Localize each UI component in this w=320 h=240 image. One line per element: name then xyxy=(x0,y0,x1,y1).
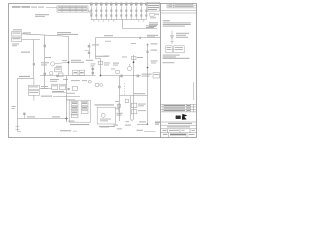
title block table lines xyxy=(161,104,197,137)
aux box cluster xyxy=(59,73,64,77)
relief header stub xyxy=(85,50,90,52)
riser to node N1 xyxy=(68,36,70,75)
vessel connection stubs xyxy=(33,78,35,100)
interface box IB-1 xyxy=(153,73,160,78)
riser pipe from feed xyxy=(44,35,46,88)
skid pump stack B labels xyxy=(82,102,87,108)
pump bubble P-2 xyxy=(127,64,131,71)
instrument bubble FI-101 xyxy=(51,62,69,66)
buffer vessels BV-1 labels xyxy=(29,86,48,93)
partner flag logo xyxy=(182,114,187,120)
group1 instrument xyxy=(98,61,103,64)
down pipe to drain junction xyxy=(66,76,68,123)
drain header labels xyxy=(41,96,52,97)
positioner box above V-21 xyxy=(116,70,119,73)
leader lines from table xyxy=(88,10,93,16)
level gauge LG-1 labels xyxy=(117,113,123,116)
valve V-23 xyxy=(118,86,120,89)
title block text rows xyxy=(163,123,196,135)
manifold branch lines with valves xyxy=(91,7,146,20)
junction cross J1 xyxy=(65,117,68,120)
mid cluster labels row2 xyxy=(66,93,75,101)
twin pipes down xyxy=(130,96,133,122)
control valve station CV-1 labels xyxy=(55,69,60,70)
inline filters F1 F2 labels xyxy=(115,101,146,111)
inline filters F1 F2 xyxy=(131,103,137,114)
sample pots SP-1 SP-2 labels xyxy=(52,85,65,92)
overhead vapour line xyxy=(96,38,161,59)
notes legend boxes xyxy=(166,46,184,53)
node N1 labels xyxy=(71,60,93,63)
top-left drawing title text xyxy=(12,6,49,16)
misc instrument box x150 y13 labels xyxy=(150,14,159,19)
isolation valve V-12 xyxy=(44,73,46,76)
inline check valve xyxy=(139,37,141,39)
pressure relief cluster labels xyxy=(88,45,90,54)
sump basin TK-2 xyxy=(97,107,115,124)
misc instrument box x150 y13 xyxy=(150,13,154,16)
top-right approvals table xyxy=(161,4,197,14)
transfer line xyxy=(120,95,148,97)
node N2 xyxy=(100,75,102,77)
frame line group xyxy=(9,4,197,138)
area label xyxy=(95,104,112,105)
group2 top instrument labels xyxy=(137,57,143,58)
mid label cluster left xyxy=(21,52,30,53)
junction node N1 xyxy=(68,62,70,64)
notes heading and paragraph xyxy=(163,20,191,26)
valve V-22 labels xyxy=(142,74,152,77)
manifold tag labels xyxy=(90,3,147,6)
vent manifold header xyxy=(91,19,147,21)
control valve station CV-1 xyxy=(55,68,62,72)
transfer line labels xyxy=(134,93,145,94)
recycle node xyxy=(147,67,149,69)
vent bowtie valve xyxy=(68,88,70,90)
pipe end cap xyxy=(15,126,21,131)
buffer vessels BV-1 xyxy=(28,85,39,95)
left long pipe xyxy=(18,79,34,132)
riser to node N1 labels xyxy=(57,32,78,35)
notes detail sketch xyxy=(171,31,174,45)
pressure relief cluster xyxy=(89,43,91,58)
level gauge LG-1 xyxy=(117,103,120,112)
right margin vertical mark xyxy=(193,82,195,100)
bottom label L1 xyxy=(60,130,77,131)
group2 top instrument xyxy=(131,56,136,59)
valve V-21 xyxy=(120,75,123,78)
legend list box outline xyxy=(147,2,159,11)
line to flare header labels xyxy=(146,25,157,28)
feed line upper xyxy=(22,34,69,37)
reference table T1 xyxy=(46,6,88,12)
top-right approvals table labels xyxy=(168,4,193,7)
drop leg x119 xyxy=(119,76,121,122)
dosing skid PK-1 outline xyxy=(69,100,90,122)
sampling instrument cluster xyxy=(96,84,103,87)
line valve xyxy=(56,75,58,77)
main process line xyxy=(40,75,96,77)
label left of titleblock xyxy=(155,122,160,125)
label cluster left of FI xyxy=(41,62,49,65)
analyser boxes AE-1 labels xyxy=(73,72,83,73)
drain header xyxy=(40,89,80,97)
signal dashed line xyxy=(124,83,126,96)
skid label xyxy=(70,124,89,125)
pressure relief cluster labels xyxy=(92,44,108,56)
bottom small marks near border xyxy=(100,126,122,129)
reference table T1 labels xyxy=(58,7,87,11)
skid pump stack B xyxy=(81,102,88,114)
drain valve V-30 xyxy=(23,113,25,115)
vapour line tag xyxy=(104,35,113,36)
notes column divider xyxy=(160,4,162,138)
interface box IB-1 labels xyxy=(154,73,159,76)
feed line lower xyxy=(22,40,40,79)
bottom drain line xyxy=(18,118,67,120)
discharge line xyxy=(101,75,142,77)
notes legend boxes labels xyxy=(163,47,190,63)
group2 riser pipe xyxy=(133,55,135,118)
faint mid labels xyxy=(105,41,136,44)
match line label xyxy=(137,130,144,131)
small utility box xyxy=(125,99,128,102)
extra density labels xyxy=(45,57,127,70)
notes detail sketch labels xyxy=(176,33,189,38)
line to flare header xyxy=(123,20,158,29)
node N3 xyxy=(133,61,135,63)
bottom drain line labels xyxy=(27,116,60,117)
sump pump P-5 xyxy=(101,113,105,117)
recycle labels xyxy=(114,121,147,125)
off-page arrow xyxy=(146,43,148,45)
group1 standpipe xyxy=(96,59,101,76)
mid cluster labels row1 xyxy=(50,79,87,82)
isolation valve V-11 xyxy=(44,45,46,48)
recycle line labels xyxy=(151,43,158,63)
group1 valves labels xyxy=(92,67,94,76)
valve on feed drop xyxy=(33,63,35,65)
match line xyxy=(144,130,155,132)
legend list box xyxy=(148,3,159,27)
valve stub xyxy=(23,115,25,119)
pipe side labels xyxy=(12,106,16,109)
skid pump stack A xyxy=(71,102,78,118)
feed source package FS-1 labels xyxy=(12,29,31,39)
group1 instrument labels xyxy=(103,56,109,57)
feed source aux labels xyxy=(12,44,19,47)
valve V-22 xyxy=(137,75,140,78)
border frame xyxy=(9,4,197,138)
junction cross J1 labels xyxy=(68,121,74,122)
left long pipe labels xyxy=(19,76,30,77)
aux drain line xyxy=(52,92,66,94)
company logo AES xyxy=(176,116,181,120)
line from node to FI xyxy=(0,0,1,1)
sample pots SP-1 SP-2 xyxy=(52,84,66,89)
pipe end tick xyxy=(147,123,149,125)
manifold valve marks xyxy=(90,10,147,17)
analyser boxes AE-1 xyxy=(73,70,85,75)
instrument bubble PI-2 xyxy=(49,71,53,75)
recycle valve xyxy=(146,51,148,53)
inline check valve labels xyxy=(147,35,158,38)
manifold drain stubs xyxy=(94,20,144,22)
recycle pipe down xyxy=(137,45,148,125)
group1 valves xyxy=(92,68,94,74)
small filter box xyxy=(72,80,91,90)
revision table row text xyxy=(164,105,190,111)
skid pump stack A labels xyxy=(72,102,77,113)
feed source package FS-1 xyxy=(12,32,22,42)
left labels group2 xyxy=(113,63,119,66)
sump pump P-5 labels xyxy=(97,104,115,127)
